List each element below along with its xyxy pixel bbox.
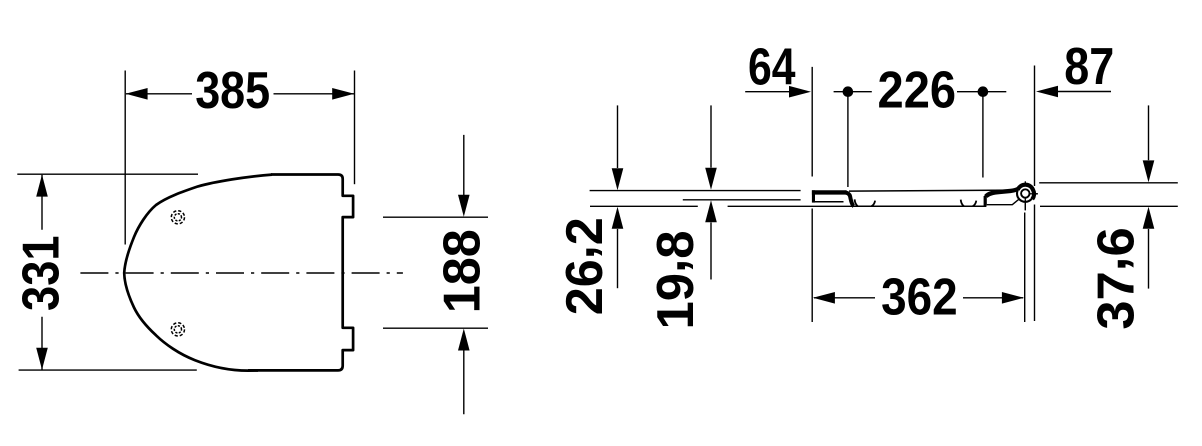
dim 19,8: lower shaft with up arrow xyxy=(710,223,712,280)
dim 331: extension line bottom xyxy=(19,369,197,371)
extension line hinge outer edge (87) xyxy=(1034,66,1036,322)
seat outline (top view): front curve xyxy=(124,175,272,371)
hinge pin centerline vertical xyxy=(1024,181,1026,210)
dim 188: arrow up (below, pointing to bottom line) xyxy=(458,329,470,351)
dim 26,2: dimension line upper shaft with down arrow xyxy=(617,105,619,168)
svg-text:64: 64 xyxy=(748,37,796,95)
dim 226: extension line left xyxy=(847,88,849,187)
hinge center tick right xyxy=(1030,193,1038,195)
dim 331: arrow up xyxy=(36,175,48,197)
dim 64: dimension line with arrow right xyxy=(745,91,789,93)
svg-text:226: 226 xyxy=(878,61,957,119)
dim 226: dot left xyxy=(843,86,854,97)
svg-text:26,2: 26,2 xyxy=(547,217,613,315)
dim 226: dimension line segments xyxy=(834,91,1007,93)
bumper front: right hook xyxy=(872,201,876,207)
dim 385: extension line left xyxy=(124,71,126,245)
ref line right top (hinge top level) xyxy=(1039,182,1178,184)
dim 362: dimension line segments xyxy=(814,297,1023,299)
seat top surface thin line xyxy=(849,190,1015,191)
bumper front: left hook xyxy=(855,199,858,206)
hinge arm band (thick) xyxy=(986,187,1021,196)
dim 19,8: dimension line upper shaft with down arrow xyxy=(710,105,712,167)
dim 331: arrow down xyxy=(36,348,48,370)
svg-text:331: 331 xyxy=(12,235,70,311)
hinge pin centerline horizontal xyxy=(1025,193,1038,195)
dim 188: extension line bottom xyxy=(383,327,488,329)
front lip section: interior bottom line xyxy=(814,201,844,203)
dim 362: arrow right xyxy=(1002,292,1024,304)
hinge inner circle xyxy=(1021,189,1029,197)
dim 331: dimension line (vertical, interrupted by text) xyxy=(41,175,43,370)
svg-text:385: 385 xyxy=(195,61,270,119)
seat bottom line (front bumper to back) xyxy=(855,205,986,207)
hinge arm bottom thin line xyxy=(987,198,1020,204)
dim 385: arrow right xyxy=(332,88,354,100)
front lip section: left edge xyxy=(812,190,815,202)
dim 331: extension line top (merges into seat top edge) xyxy=(17,173,198,175)
bumper back: left hook xyxy=(961,200,964,207)
svg-text:19,8: 19,8 xyxy=(638,231,704,330)
front lip section: thick top bar with tail xyxy=(812,190,848,194)
svg-text:87: 87 xyxy=(1064,37,1114,95)
extension line front edge (shared 64/362) xyxy=(811,67,813,322)
ref line right bottom xyxy=(1040,205,1178,207)
dim 188: arrow down (above, pointing to top line) xyxy=(458,195,470,217)
dim 87: dimension line with arrow left xyxy=(1058,91,1111,93)
dim 188: dimension line shafts (outside arrows) xyxy=(463,135,465,414)
svg-text:362: 362 xyxy=(881,268,958,326)
hinge hole bottom (dashed circles) xyxy=(171,323,184,336)
back edge of ring section (thick vertical) xyxy=(984,196,987,206)
dim 362: arrow left xyxy=(813,292,835,304)
bumper back: right hook xyxy=(973,201,977,207)
centerline (horizontal dash-dot axis of seat) xyxy=(80,272,403,274)
dim 26,2: lower shaft with up arrow xyxy=(617,229,619,288)
ref line top surface (left extension) xyxy=(590,190,801,192)
dim 385: dimension line xyxy=(126,93,354,95)
dim 37,6: upper shaft with down arrow xyxy=(1148,105,1150,160)
seat outline (top view): straight top, right edge with hinge tabs, bottom xyxy=(248,175,353,371)
dim 385: arrow left xyxy=(126,88,148,100)
dim 362: extension line right (hinge axis continuation) xyxy=(1024,213,1026,323)
hinge thick arc (band wrapping over pin) xyxy=(1018,185,1034,199)
dim 226: extension line right xyxy=(982,88,984,178)
ref line middle (underside front, left extension) xyxy=(683,199,801,201)
hinge outer circle xyxy=(1017,185,1034,202)
svg-text:37,6: 37,6 xyxy=(1079,227,1145,330)
hinge hole top (dashed circles) xyxy=(171,211,184,224)
svg-text:188: 188 xyxy=(432,229,490,313)
ref line bottom (bumper level, left extension with gap at 19,8 arrow) xyxy=(590,205,855,207)
hinge center tick bottom xyxy=(1024,198,1026,211)
dim 188: extension line top xyxy=(383,216,488,218)
dim 226: dot right xyxy=(978,86,989,97)
dim 37,6: lower shaft with up arrow xyxy=(1148,229,1150,289)
dim 385: extension line right xyxy=(354,71,356,185)
